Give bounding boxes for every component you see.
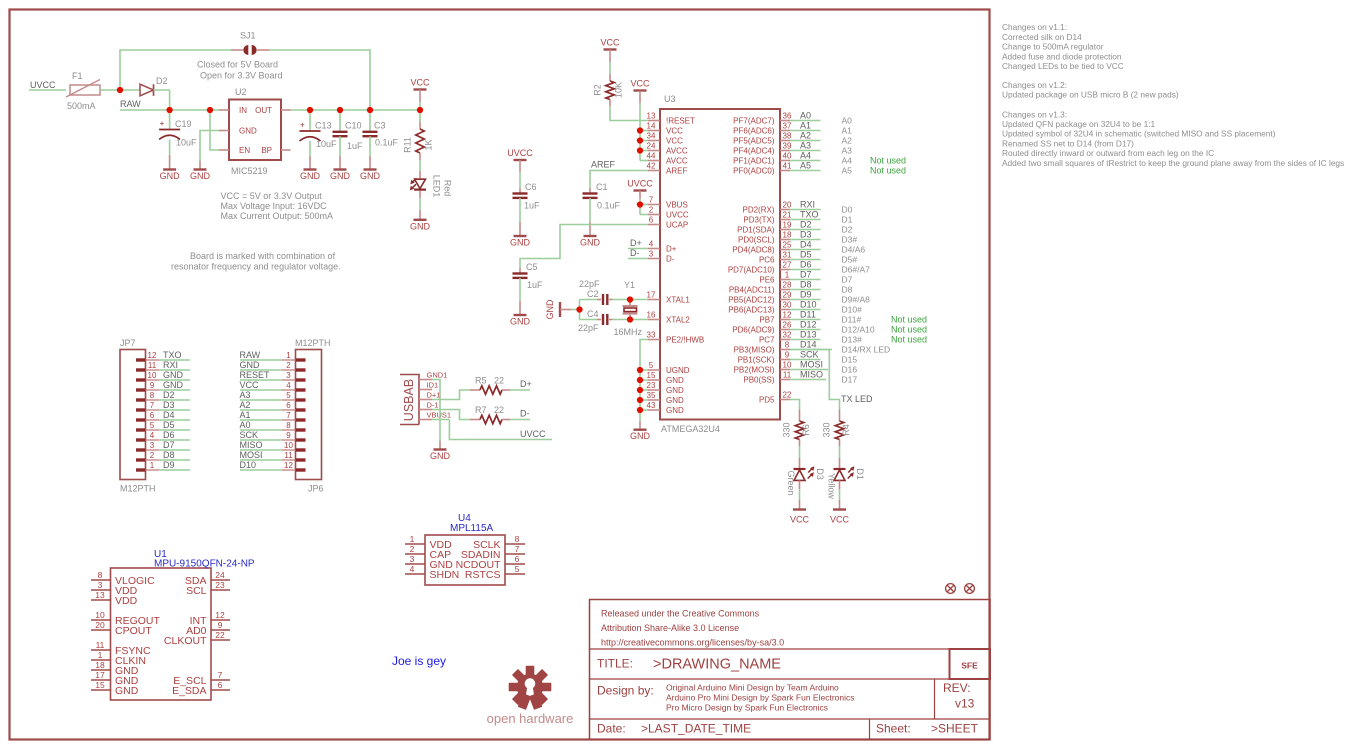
pin 4 of JP6	[282, 381, 306, 390]
svg-text:Added two small squares of tRe: Added two small squares of tRestrict to …	[1002, 158, 1344, 168]
pin 24 AVCC	[647, 142, 688, 156]
wire D6	[790, 269, 821, 271]
wire D2	[790, 229, 821, 231]
svg-text:Updated symbol of 32U4 in sche: Updated symbol of 32U4 in schematic (swi…	[1002, 129, 1276, 139]
capacitor C13	[300, 110, 338, 170]
pin 15 GND	[647, 371, 684, 385]
svg-text:MISO: MISO	[240, 440, 263, 450]
svg-text:7: 7	[649, 196, 654, 205]
svg-text:11: 11	[783, 371, 792, 380]
label D0	[842, 204, 853, 214]
svg-text:PC6: PC6	[759, 255, 775, 264]
net label D3	[163, 400, 175, 410]
svg-text:Changes on v1.3:: Changes on v1.3:	[1002, 109, 1067, 119]
pin 6 UCAP	[648, 216, 688, 230]
svg-text:GND: GND	[580, 238, 601, 248]
svg-text:v13: v13	[955, 697, 975, 711]
svg-text:GND: GND	[160, 171, 181, 181]
net label UVCC	[30, 80, 56, 90]
svg-text:22: 22	[783, 391, 792, 400]
svg-text:D7: D7	[163, 440, 175, 450]
fiducial mark	[965, 584, 975, 594]
net label GND	[240, 360, 261, 370]
wire D9	[159, 469, 190, 471]
svg-text:XTAL1: XTAL1	[666, 295, 690, 304]
wire D-	[510, 419, 530, 421]
svg-text:Updated package on USB micro B: Updated package on USB micro B (2 new pa…	[1002, 90, 1179, 100]
label D11#	[842, 314, 862, 324]
junction	[367, 107, 373, 113]
svg-text:6: 6	[286, 401, 291, 410]
svg-text:11: 11	[284, 451, 293, 460]
net label D10	[240, 460, 257, 470]
svg-text:D13#: D13#	[842, 334, 863, 344]
wire	[640, 370, 648, 410]
svg-text:11: 11	[148, 361, 157, 370]
capacitor C1	[583, 182, 621, 236]
svg-text:UVCC: UVCC	[30, 80, 56, 90]
svg-text:GND: GND	[190, 171, 211, 181]
net label VCC	[240, 380, 260, 390]
wire RAW	[240, 359, 282, 361]
text annotation	[392, 654, 446, 668]
wire D5	[790, 259, 821, 261]
label D7	[842, 274, 853, 284]
wire RESET	[610, 106, 648, 121]
svg-text:22pF: 22pF	[579, 279, 600, 289]
pin 6 E_SDA	[172, 680, 230, 697]
wire D10	[240, 469, 282, 471]
svg-text:Not used: Not used	[891, 314, 927, 324]
svg-text:D14/RX LED: D14/RX LED	[842, 344, 891, 354]
wire GND	[159, 389, 190, 391]
svg-text:9: 9	[150, 381, 155, 390]
svg-text:36: 36	[783, 112, 792, 121]
svg-text:7: 7	[150, 401, 155, 410]
pin 37 PF6(ADC6)	[733, 122, 792, 136]
svg-text:TXO: TXO	[800, 210, 819, 220]
wire SJ1 loop	[120, 50, 370, 110]
svg-text:26: 26	[783, 321, 792, 330]
svg-text:C1: C1	[596, 182, 608, 192]
svg-text:15: 15	[95, 680, 105, 690]
svg-text:23: 23	[215, 580, 225, 590]
svg-text:3: 3	[286, 371, 291, 380]
svg-text:PF0(ADC0): PF0(ADC0)	[733, 166, 775, 175]
capacitor C5	[513, 262, 544, 315]
crystal Y1	[614, 280, 643, 337]
svg-text:MIC5219: MIC5219	[231, 166, 268, 176]
svg-text:C6: C6	[525, 182, 537, 192]
svg-text:VCC: VCC	[630, 79, 650, 89]
svg-text:16MHz: 16MHz	[614, 327, 643, 337]
net label D10	[800, 300, 817, 310]
svg-text:D6#/A7: D6#/A7	[842, 264, 871, 274]
svg-text:33: 33	[647, 331, 656, 340]
svg-text:D4/A6: D4/A6	[842, 244, 866, 254]
svg-text:7: 7	[218, 670, 223, 680]
junction	[637, 407, 643, 413]
wire A2	[240, 409, 282, 411]
net label A1	[800, 121, 811, 131]
svg-text:RSTCS: RSTCS	[465, 569, 501, 581]
pin 20 PD2(RX)	[742, 201, 792, 215]
net label A4	[800, 151, 811, 161]
svg-text:GND: GND	[330, 171, 351, 181]
svg-text:2: 2	[150, 451, 155, 460]
net label RXI	[163, 360, 178, 370]
svg-text:A3: A3	[842, 145, 853, 155]
wire A1	[790, 130, 821, 132]
svg-text:PB1(SCK): PB1(SCK)	[738, 355, 775, 364]
junction	[207, 107, 213, 113]
net label A0	[240, 420, 251, 430]
svg-text:2: 2	[649, 206, 654, 215]
svg-text:Not used: Not used	[891, 324, 927, 334]
note board marking	[171, 251, 341, 272]
svg-text:UVCC: UVCC	[666, 210, 689, 219]
junction	[637, 377, 643, 383]
pin 24 SDA	[185, 570, 230, 587]
pin 10 of JP6	[282, 441, 306, 450]
net label A2	[800, 131, 811, 141]
wire D4	[159, 419, 190, 421]
wire	[579, 300, 581, 320]
junction	[637, 147, 643, 153]
svg-text:0.1uF: 0.1uF	[597, 201, 621, 211]
pin 5 RSTCS	[465, 564, 525, 581]
label A0	[842, 115, 853, 125]
svg-text:D10: D10	[240, 460, 257, 470]
power UVCC	[627, 179, 653, 200]
net label D2	[163, 390, 175, 400]
svg-text:BP: BP	[261, 146, 272, 155]
svg-text:A4: A4	[800, 151, 811, 161]
svg-text:GND: GND	[510, 317, 531, 327]
svg-text:PD5: PD5	[759, 395, 775, 404]
svg-text:Design by:: Design by:	[597, 684, 654, 698]
pin 21 PD3(TX)	[743, 211, 792, 225]
svg-text:Released under the Creative Co: Released under the Creative Commons	[601, 609, 760, 619]
svg-text:D6: D6	[800, 260, 812, 270]
svg-text:2: 2	[410, 544, 415, 554]
wire D-1	[432, 410, 470, 420]
svg-text:Max Current Output: 500mA: Max Current Output: 500mA	[221, 211, 334, 221]
wire UVCC	[432, 420, 552, 440]
svg-text:32: 32	[783, 331, 792, 340]
net label A3	[800, 141, 811, 151]
svg-text:8: 8	[98, 570, 103, 580]
ground	[630, 430, 651, 442]
svg-text:PC7: PC7	[759, 335, 775, 344]
svg-text:C10: C10	[345, 121, 362, 131]
pin 18 PD0(SCL)	[738, 231, 792, 245]
svg-text:34: 34	[647, 132, 656, 141]
net label MISO	[800, 370, 823, 380]
net label MISO	[240, 440, 263, 450]
svg-text:ATMEGA32U4: ATMEGA32U4	[661, 424, 720, 434]
net label D7	[800, 270, 812, 280]
resistor R7	[470, 405, 510, 424]
net label UVCC	[520, 429, 546, 439]
svg-text:3: 3	[98, 580, 103, 590]
pin 5 UGND	[648, 361, 690, 375]
svg-text:D2: D2	[842, 224, 853, 234]
svg-text:SFE: SFE	[961, 661, 978, 671]
svg-text:AREF: AREF	[591, 160, 616, 170]
svg-text:19: 19	[783, 221, 792, 230]
svg-text:29: 29	[783, 291, 792, 300]
pin 18 GND	[91, 660, 139, 677]
svg-text:VCC: VCC	[830, 515, 850, 525]
svg-text:VCC: VCC	[666, 126, 683, 135]
svg-text:GND: GND	[545, 299, 555, 320]
svg-text:GND: GND	[360, 171, 381, 181]
ground	[160, 170, 181, 182]
pin 35 GND	[647, 391, 684, 405]
svg-text:1: 1	[286, 351, 291, 360]
svg-text:D6: D6	[163, 430, 175, 440]
svg-text:PB4(ADC11): PB4(ADC11)	[729, 285, 775, 294]
svg-text:resonator frequency and regula: resonator frequency and regulator voltag…	[171, 262, 341, 272]
svg-text:8: 8	[785, 341, 790, 350]
svg-text:D5: D5	[800, 250, 812, 260]
pin 33 PE2/!HWB	[647, 331, 705, 345]
net label TX LED	[841, 394, 873, 404]
svg-text:U3: U3	[664, 94, 676, 104]
net label D+	[520, 379, 532, 389]
svg-text:Max Voltage Input: 16VDC: Max Voltage Input: 16VDC	[221, 201, 328, 211]
junction	[337, 107, 343, 113]
svg-text:Added fuse and diode protectio: Added fuse and diode protection	[1002, 51, 1122, 61]
wire D7	[159, 449, 190, 451]
svg-text:A2: A2	[800, 131, 811, 141]
pin 16 XTAL2	[647, 311, 691, 325]
pin 31 PC6	[759, 251, 792, 265]
pin 8 PB3(MISO)	[734, 341, 790, 355]
svg-text:RXI: RXI	[800, 200, 815, 210]
wire	[154, 90, 170, 110]
label not used A4	[870, 155, 906, 165]
svg-text:LED1: LED1	[432, 175, 442, 198]
pin 11 FSYNC	[91, 640, 151, 657]
svg-text:SCK: SCK	[800, 350, 819, 360]
svg-text:MISO: MISO	[800, 370, 823, 380]
pin 44 AVCC	[647, 152, 688, 166]
junction	[576, 306, 582, 312]
pin 12 of JP7	[136, 351, 159, 360]
wire UVCC	[29, 89, 66, 91]
svg-text:Change to 500mA regulator: Change to 500mA regulator	[1002, 42, 1104, 52]
pin 11 of JP6	[282, 451, 306, 460]
connector JP6	[295, 338, 331, 494]
net label D3	[800, 230, 812, 240]
svg-text:PB0(SS): PB0(SS)	[743, 375, 774, 384]
svg-text:D-: D-	[666, 254, 675, 263]
svg-text:PB2(MOSI): PB2(MOSI)	[734, 365, 775, 374]
svg-text:>LAST_DATE_TIME: >LAST_DATE_TIME	[641, 722, 751, 736]
label D16	[842, 364, 858, 374]
svg-text:12: 12	[783, 311, 792, 320]
svg-text:PD0(SCL): PD0(SCL)	[738, 235, 775, 244]
svg-text:D15: D15	[842, 354, 858, 364]
net label MOSI	[240, 450, 263, 460]
svg-text:PE2/!HWB: PE2/!HWB	[666, 335, 704, 344]
label D3#	[842, 234, 858, 244]
pin 3 of JP7	[136, 441, 159, 450]
wire A1	[240, 419, 282, 421]
svg-text:AVCC: AVCC	[666, 146, 688, 155]
svg-text:GND: GND	[666, 376, 684, 385]
wire D5	[159, 429, 190, 431]
svg-text:9: 9	[286, 431, 291, 440]
wire A2	[790, 140, 821, 142]
ground	[300, 170, 321, 182]
svg-text:PF6(ADC6): PF6(ADC6)	[733, 126, 775, 135]
svg-text:MPU-9150QFN-24-NP: MPU-9150QFN-24-NP	[154, 559, 255, 570]
power VCC	[410, 78, 430, 111]
svg-text:Routed directly inward or outw: Routed directly inward or outward from e…	[1002, 148, 1214, 158]
svg-text:9: 9	[785, 351, 790, 360]
svg-text:XTAL2: XTAL2	[666, 315, 690, 324]
svg-text:ID1: ID1	[427, 381, 439, 390]
svg-text:D-: D-	[630, 248, 640, 258]
pin 9 PB1(SCK)	[738, 351, 790, 365]
net label A1	[240, 410, 251, 420]
svg-text:D3: D3	[815, 468, 825, 480]
svg-text:Changed LEDs to be tied to VCC: Changed LEDs to be tied to VCC	[1002, 61, 1124, 71]
svg-text:6: 6	[218, 680, 223, 690]
pin 3 VDD	[91, 580, 138, 597]
label D4/A6	[842, 244, 866, 254]
pin 23 SCL	[186, 580, 230, 597]
wire D+	[628, 248, 648, 250]
svg-text:GND1: GND1	[427, 371, 448, 380]
svg-text:GND: GND	[430, 451, 451, 461]
svg-text:D-: D-	[520, 409, 530, 419]
svg-text:4: 4	[410, 564, 415, 574]
svg-text:12: 12	[148, 351, 157, 360]
svg-text:D+: D+	[666, 244, 677, 253]
svg-text:1: 1	[98, 650, 103, 660]
net label RAW	[240, 350, 261, 360]
svg-text:A3: A3	[800, 141, 811, 151]
svg-text:D7: D7	[800, 270, 812, 280]
net label RESET	[240, 370, 271, 380]
pin 7 SDADIN	[461, 544, 525, 561]
capacitor C4	[578, 309, 613, 333]
capacitor C3	[363, 110, 399, 170]
svg-text:31: 31	[783, 251, 792, 260]
svg-text:PD6(ADC9): PD6(ADC9)	[732, 325, 775, 334]
svg-text:330: 330	[822, 422, 832, 437]
svg-text:9: 9	[218, 620, 223, 630]
pin 2 of JP6	[282, 361, 306, 370]
svg-text:VDD: VDD	[115, 595, 138, 607]
pin 1 of JP6	[282, 351, 306, 360]
svg-text:10: 10	[284, 441, 293, 450]
svg-text:Not used: Not used	[870, 155, 906, 165]
svg-text:D12/A10: D12/A10	[842, 324, 875, 334]
pin 17 XTAL1	[647, 291, 691, 305]
svg-text:D2: D2	[800, 220, 812, 230]
svg-text:D8: D8	[163, 450, 175, 460]
pin 29 PB5(ADC12)	[728, 291, 792, 305]
wire UCAP	[520, 225, 648, 269]
svg-text:RAW: RAW	[240, 350, 261, 360]
wire TXO	[790, 219, 821, 221]
power VCC	[790, 510, 810, 525]
label D12/A10	[842, 324, 875, 334]
pin 6 of JP7	[136, 411, 159, 420]
IMU U1	[111, 549, 255, 700]
wire VCC	[240, 389, 282, 391]
svg-text:Original Arduino Mini Design b: Original Arduino Mini Design by Team Ard…	[666, 683, 839, 693]
pin 3 of JP6	[282, 371, 306, 380]
svg-text:43: 43	[647, 401, 656, 410]
junction	[637, 397, 643, 403]
svg-text:GND: GND	[163, 370, 184, 380]
svg-text:GND: GND	[666, 396, 684, 405]
net label TXO	[163, 350, 182, 360]
svg-text:Closed for 5V Board: Closed for 5V Board	[197, 60, 278, 70]
svg-text:PB5(ADC12): PB5(ADC12)	[728, 295, 775, 304]
svg-text:RESET: RESET	[240, 370, 271, 380]
pin 19 PD1(SDA)	[737, 221, 792, 235]
wire SCK	[790, 359, 821, 361]
svg-text:22: 22	[215, 630, 225, 640]
pin 10 REGOUT	[91, 610, 161, 627]
pin 11 PB0(SS)	[743, 371, 791, 385]
net label RAW	[120, 99, 141, 109]
ground	[190, 170, 211, 182]
svg-text:PB6(ADC13): PB6(ADC13)	[728, 305, 775, 314]
wire D-	[628, 258, 648, 260]
svg-text:D11: D11	[800, 310, 816, 320]
svg-text:6: 6	[515, 554, 520, 564]
svg-text:>DRAWING_NAME: >DRAWING_NAME	[653, 657, 781, 673]
LED D3	[786, 458, 825, 510]
svg-text:RXI: RXI	[163, 360, 178, 370]
label D10#	[842, 304, 863, 314]
label D9#/A8	[842, 294, 871, 304]
pin 22 CLKOUT	[164, 630, 230, 647]
capacitor C2	[579, 279, 613, 305]
pin 27 PD7(ADC10)	[728, 261, 792, 275]
pin 13 !RESET	[647, 112, 695, 126]
pin 8 of JP7	[136, 391, 159, 400]
svg-text:D3: D3	[163, 400, 175, 410]
wire D10	[790, 309, 821, 311]
svg-text:A5: A5	[800, 161, 811, 171]
svg-text:R5: R5	[475, 376, 487, 386]
svg-text:17: 17	[95, 670, 105, 680]
svg-text:VCC: VCC	[240, 380, 260, 390]
svg-text:16: 16	[647, 311, 656, 320]
note regulator limits	[221, 191, 334, 221]
wire RXI	[159, 369, 190, 371]
label A5	[842, 165, 853, 175]
license text	[601, 609, 784, 648]
svg-text:CPOUT: CPOUT	[115, 625, 152, 637]
svg-text:D0: D0	[842, 204, 853, 214]
pin 1 of JP7	[136, 461, 159, 470]
wire D11	[790, 319, 821, 321]
svg-text:D9: D9	[163, 460, 175, 470]
junction	[637, 201, 643, 207]
svg-text:PD4(ADC8): PD4(ADC8)	[732, 245, 775, 254]
junction	[637, 367, 643, 373]
